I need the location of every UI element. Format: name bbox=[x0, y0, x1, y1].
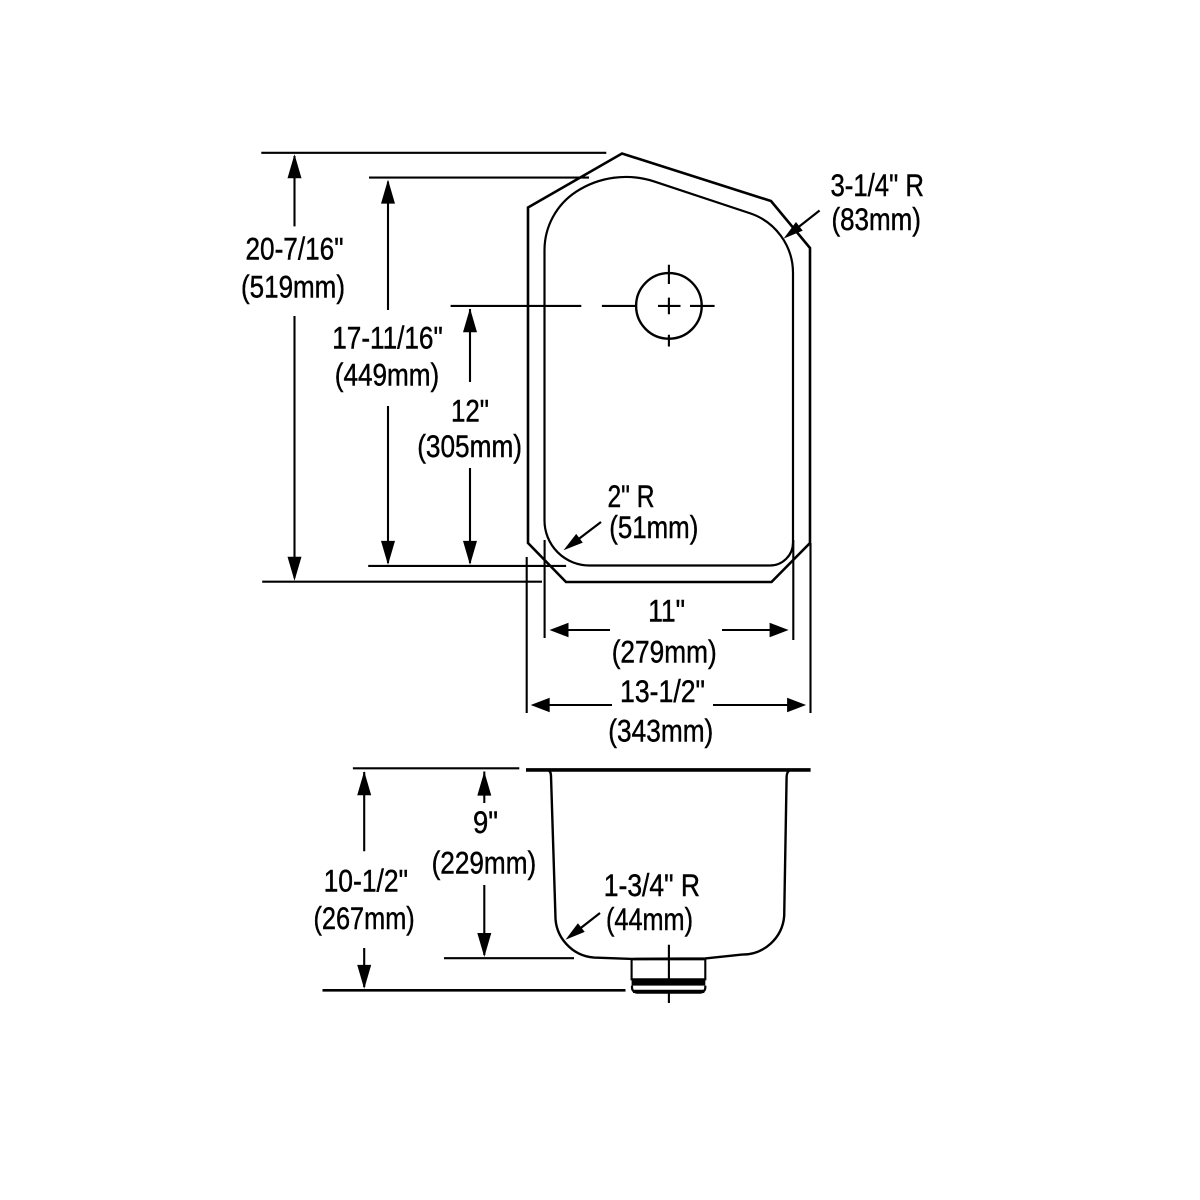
dimension 20-7/16 line bbox=[293, 156, 295, 578]
drain fitting black band bbox=[632, 979, 706, 985]
side view rim line bbox=[526, 768, 811, 772]
drain fitting outer rect (side view) bbox=[632, 959, 706, 979]
svg-text:(83mm): (83mm) bbox=[831, 201, 921, 237]
extension line below bowl left (11) bbox=[544, 540, 546, 638]
dimension 12 arrow down bbox=[463, 541, 477, 565]
centerline through drain to left bbox=[451, 305, 582, 307]
dimension 10-1/2 arrow down bbox=[357, 965, 371, 989]
svg-text:17-11/16": 17-11/16" bbox=[332, 320, 443, 356]
svg-text:(267mm): (267mm) bbox=[314, 900, 415, 936]
dimension 17-11/16 line bbox=[387, 182, 389, 563]
svg-text:3-1/4" R: 3-1/4" R bbox=[830, 167, 924, 203]
leader arrow 2 R bbox=[577, 522, 601, 540]
dimension 17-11/16 arrow up bbox=[381, 180, 395, 204]
svg-text:(279mm): (279mm) bbox=[612, 634, 717, 670]
dimension 13-1/2 line bbox=[547, 704, 789, 706]
side view extension line top bbox=[353, 767, 519, 769]
dimension 13-1/2 arrow right bbox=[787, 698, 806, 713]
extension line at bowl top bbox=[369, 177, 589, 179]
dimension 10-1/2 line bbox=[363, 772, 365, 987]
svg-text:(343mm): (343mm) bbox=[608, 713, 713, 749]
svg-text:12": 12" bbox=[451, 393, 489, 429]
9 inch extension line (side view) bbox=[444, 957, 574, 959]
svg-text:20-7/16": 20-7/16" bbox=[246, 231, 344, 267]
svg-text:11": 11" bbox=[648, 593, 685, 629]
svg-text:(305mm): (305mm) bbox=[417, 428, 522, 464]
sink outer rim (plan view) bbox=[528, 154, 810, 583]
dimension 9 arrow up bbox=[477, 772, 491, 796]
svg-text:1-3/4" R: 1-3/4" R bbox=[604, 867, 700, 903]
dimension 20-7/16 arrow down bbox=[288, 557, 302, 581]
dimension 12 line bbox=[469, 309, 471, 563]
leader arrow 3-1/4 R bbox=[797, 211, 820, 229]
extension line below rim right (13-1/2) bbox=[809, 543, 811, 713]
svg-text:(229mm): (229mm) bbox=[432, 845, 537, 881]
svg-text:(519mm): (519mm) bbox=[241, 269, 345, 305]
dimension 12 arrow up bbox=[463, 308, 477, 332]
drain hole vertical centerline bbox=[668, 265, 670, 347]
leader arrow 1-3/4 R bbox=[579, 913, 600, 929]
dimension 13-1/2 arrow left bbox=[531, 698, 550, 713]
dimension 20-7/16 arrow up bbox=[288, 154, 302, 178]
dimension 9 line bbox=[483, 772, 485, 956]
extension line below rim left (13-1/2) bbox=[526, 557, 528, 713]
svg-text:10-1/2": 10-1/2" bbox=[324, 863, 408, 899]
dimension 10-1/2 arrow up bbox=[357, 771, 371, 795]
svg-text:(44mm): (44mm) bbox=[606, 901, 693, 937]
dimension 11 arrow left bbox=[550, 623, 569, 638]
drain centerline (side view) bbox=[668, 945, 670, 1003]
extension line at rim bottom bbox=[262, 581, 542, 583]
dimension 17-11/16 arrow down bbox=[381, 541, 395, 565]
side view bowl outline bbox=[547, 770, 790, 959]
extension line below bowl right (11) bbox=[792, 540, 794, 640]
drain hole circle bbox=[636, 273, 702, 339]
extension line at bowl bottom bbox=[368, 565, 566, 567]
drain fitting lower lip bbox=[632, 986, 705, 993]
svg-text:13-1/2": 13-1/2" bbox=[620, 673, 705, 709]
drain hole horizontal centerline bbox=[602, 305, 715, 307]
ground line (side view) bbox=[323, 989, 626, 992]
svg-text:(449mm): (449mm) bbox=[335, 356, 440, 392]
dimension 11 arrow right bbox=[770, 623, 789, 638]
sink bowl inner outline (plan view) bbox=[544, 177, 793, 566]
extension line top (overall length) bbox=[261, 152, 606, 154]
dimension 11 line bbox=[566, 629, 771, 631]
svg-text:(51mm): (51mm) bbox=[609, 509, 698, 545]
dimension 9 arrow down bbox=[477, 933, 491, 957]
svg-text:9": 9" bbox=[473, 804, 498, 840]
